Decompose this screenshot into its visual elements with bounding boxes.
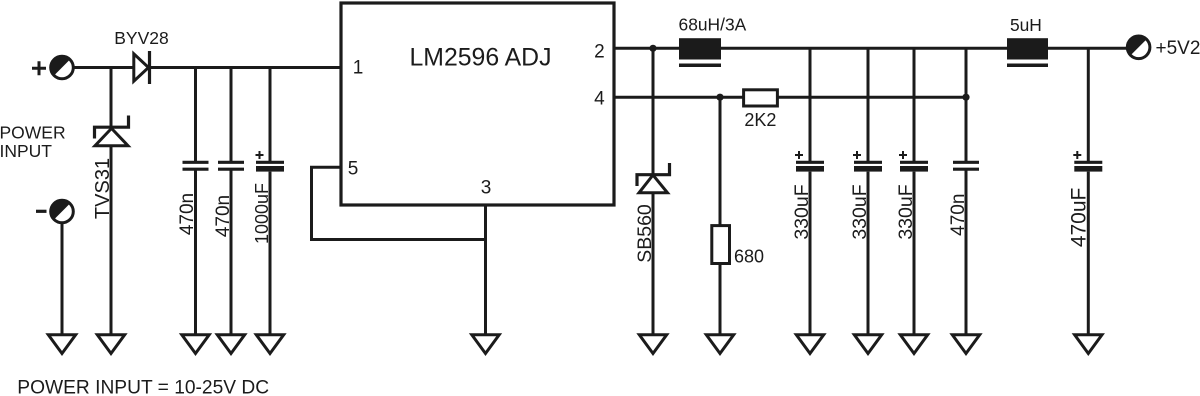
svg-text:2K2: 2K2 (744, 110, 776, 130)
capacitor C1 470n (183, 162, 209, 169)
wire 2K2 to output node (777, 96, 966, 99)
diode D1 BYV28 (134, 51, 150, 84)
wire cap C5 branch (867, 48, 870, 161)
wire cap C6 branch (913, 48, 916, 161)
label - (minus input) (36, 210, 47, 213)
svg-text:LM2596 ADJ: LM2596 ADJ (410, 45, 552, 72)
ground (680) (706, 335, 733, 354)
terminal J3 output +5V2 (1127, 36, 1150, 59)
ground (C2) (217, 335, 244, 354)
wire diode cathode to pin 1 (150, 66, 342, 69)
wire input plus to diode anode (73, 66, 134, 69)
ground (C8) (1075, 335, 1102, 354)
wire pin 2 to inductor (614, 47, 679, 50)
ground (pin 3) (472, 335, 499, 354)
ground (TVS31) (97, 335, 124, 354)
wire TVS branch (110, 68, 113, 129)
svg-text:68uH/3A: 68uH/3A (679, 15, 747, 35)
ground (C3) (256, 335, 283, 354)
inductor L2 5uH (1007, 38, 1048, 67)
svg-text:680: 680 (734, 247, 764, 267)
capacitor C4 330uF polarized (795, 151, 824, 172)
resistor R1 2K2 (744, 90, 778, 106)
ground (SB560) (639, 335, 666, 354)
node junction at SB560 tap (649, 45, 656, 52)
wire C1 to ground (194, 171, 197, 336)
capacitor C2 470n (218, 162, 244, 169)
node junction at 680 tap (716, 94, 723, 101)
label + (plus input) (32, 61, 46, 75)
wire cap C2 branch (230, 68, 233, 162)
wire C4 to ground (809, 172, 812, 335)
svg-text:4: 4 (594, 89, 605, 110)
wire C8 to ground (1087, 172, 1090, 335)
terminal J2 minus input (51, 200, 74, 223)
wire SB560 branch (652, 48, 655, 174)
diode D2 SB560 schottky (637, 163, 670, 193)
wire pin 5 loop (312, 167, 486, 239)
wire cap C8 branch (1087, 48, 1090, 161)
wire minus to ground (61, 223, 64, 335)
wire cap C4 branch (809, 48, 812, 161)
capacitor C5 330uF polarized (853, 151, 882, 172)
wire SB560 to ground (652, 193, 655, 335)
svg-text:5uH: 5uH (1010, 15, 1042, 35)
wire C7 to ground (965, 171, 968, 336)
op-amp U1 LM2596 ADJ box (341, 3, 614, 205)
svg-text:INPUT: INPUT (0, 141, 52, 161)
svg-text:POWER: POWER (0, 123, 66, 143)
wire C2 to ground (230, 171, 233, 336)
wire 680 branch (719, 97, 722, 225)
terminal J1 plus input (51, 56, 74, 79)
svg-text:2: 2 (594, 42, 605, 63)
ground (C5) (854, 335, 881, 354)
resistor R2 680 (712, 226, 730, 264)
TVS diode TVS31 (95, 116, 129, 146)
wire TVS to ground (110, 146, 113, 335)
wire cap C3 branch (269, 68, 272, 162)
capacitor C6 330uF polarized (899, 151, 928, 172)
wire pin 4 feedback (614, 96, 744, 99)
svg-text:POWER INPUT = 10-25V DC: POWER INPUT = 10-25V DC (17, 377, 269, 396)
svg-text:BYV28: BYV28 (114, 28, 168, 48)
inductor L1 68uH/3A (679, 38, 721, 67)
wire inductor L1 to 5uH inductor (output rail) (721, 47, 1007, 50)
capacitor C7 470n (953, 162, 979, 169)
wire pin 3 to ground (484, 205, 487, 335)
capacitor C3 1000uF polarized (256, 151, 285, 172)
ground (C6) (900, 335, 927, 354)
capacitor C8 470uF polarized (1073, 151, 1102, 172)
svg-text:3: 3 (481, 178, 492, 199)
svg-text:1: 1 (353, 58, 364, 79)
ground (C4) (796, 335, 823, 354)
ground (minus input) (48, 335, 75, 354)
wire 680 to ground (719, 264, 722, 336)
ground (C1) (182, 335, 209, 354)
svg-text:+5V2: +5V2 (1156, 38, 1200, 59)
wire C3 to ground (269, 172, 272, 335)
svg-text:5: 5 (348, 158, 359, 179)
node junction feedback to output rail (962, 94, 969, 101)
wire 5uH to output terminal (1048, 47, 1127, 50)
ground (C7) (952, 335, 979, 354)
wire cap C1 branch (194, 68, 197, 162)
wire C6 to ground (913, 172, 916, 335)
wire C5 to ground (867, 172, 870, 335)
wire cap C7 branch (965, 48, 968, 161)
